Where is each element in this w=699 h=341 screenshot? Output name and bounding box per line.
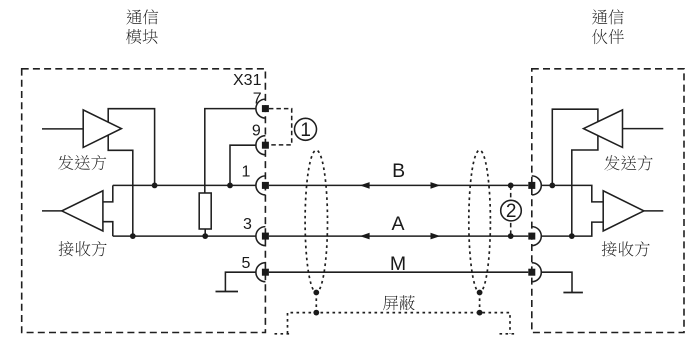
pin 9 socket arc [256, 136, 266, 155]
shield bus line (dotted) [288, 313, 511, 334]
svg-text:9: 9 [252, 123, 261, 140]
pin 5 contact square [262, 269, 269, 276]
junction on line A at x=132.8 [130, 233, 136, 239]
left cable sheath ellipse (dotted) [305, 150, 327, 292]
label 通信 (partner, line 1) [592, 9, 624, 24]
pin 1 socket arc [256, 176, 266, 195]
right cable sheath ellipse (dotted) [469, 150, 491, 292]
junction on line B at x=154.6 [152, 183, 158, 189]
dashed jumper between B and A at partner [510, 185, 512, 236]
label 发送方 (right sender) [604, 155, 652, 170]
label 伙伴 (partner, line 2) [592, 29, 624, 44]
cable line B [269, 184, 528, 186]
left sender driver triangle [83, 110, 121, 147]
arrowheads on line A [360, 233, 370, 240]
module box (communication module, dashed) [22, 69, 266, 333]
label 通信 (module, line 1) [126, 9, 158, 24]
wire: pin 9 stub down to line B [230, 145, 256, 185]
label 接收方 (right receiver) [602, 241, 650, 256]
partner pin M contact square [528, 269, 535, 276]
right receiver triangle [603, 191, 644, 231]
wire: left sender bottom output to line A [108, 135, 133, 236]
left receiver output wire [42, 210, 62, 212]
junction at left sheath bottom [313, 290, 319, 296]
wire: right sender bottom output to line A [572, 136, 598, 237]
shield drop from left sheath [315, 292, 317, 312]
right receiver output wire [644, 210, 663, 212]
svg-text:5: 5 [241, 255, 250, 272]
junction on shield line right [477, 310, 483, 316]
svg-text:2: 2 [506, 201, 517, 222]
svg-text:7: 7 [253, 90, 262, 107]
shield tail right [500, 333, 518, 335]
left sender input wire [42, 128, 83, 130]
pin 7 contact square [262, 105, 269, 112]
dashed jumper between pin 7 and pin 9 [269, 109, 292, 145]
wire: line B inside module to pin 1 [113, 184, 256, 186]
label 模块 (module, line 2) [126, 29, 158, 44]
svg-text:B: B [392, 160, 405, 182]
partner pin B socket arc [532, 176, 542, 195]
junction on shield line left [313, 310, 319, 316]
arrowheads on line B [360, 182, 370, 189]
cable line A [269, 235, 528, 237]
cable line M [269, 271, 528, 273]
right ground symbol [563, 292, 583, 294]
pin 1 contact square [262, 182, 269, 189]
wire: left sender top output to line B [108, 109, 154, 186]
pin 9 contact square [262, 142, 269, 149]
junction at right sheath bottom [477, 290, 483, 296]
wire: partner pin M to ground [541, 272, 572, 292]
wire: line A inside module to pin 3 [113, 235, 256, 237]
svg-text:M: M [390, 253, 406, 275]
wire: pin 5 to ground [225, 272, 256, 291]
wire: left receiver top input from line B [103, 185, 113, 202]
partner pin M socket arc [532, 263, 542, 282]
junction on line B at x=552.3 [549, 183, 555, 189]
label 屏蔽 (shield) [383, 295, 415, 310]
svg-text:1: 1 [242, 163, 251, 180]
partner pin A socket arc [532, 227, 542, 246]
wire: pin 7 stub [205, 109, 256, 193]
wire: line A to right receiver bottom input [541, 222, 603, 236]
svg-text:A: A [391, 213, 404, 235]
wire: right sender top output to line B [552, 109, 598, 185]
label 发送方 (left sender) [58, 155, 106, 170]
junction on line A at resistor [202, 233, 208, 239]
resistor bottom lead to line A [204, 229, 206, 236]
shield drop from right sheath [479, 292, 481, 312]
junction on A at jumper [508, 233, 514, 239]
wire: line B to right receiver top input [541, 185, 603, 202]
callout circle 1 [295, 118, 317, 140]
partner pin A contact square [528, 233, 535, 240]
partner box (communication partner, dashed) [532, 69, 684, 333]
right sender driver triangle [584, 110, 623, 147]
shield tail left [275, 333, 292, 335]
label 接收方 (left receiver) [59, 241, 107, 256]
partner pin B contact square [528, 182, 535, 189]
pin 3 socket arc [256, 227, 266, 246]
junction on line B at x=230 [227, 183, 233, 189]
callout circle 2 [501, 200, 522, 221]
left ground symbol [216, 291, 239, 293]
junction on B at jumper [508, 183, 514, 189]
pin 3 contact square [262, 233, 269, 240]
svg-text:X31: X31 [233, 72, 262, 89]
pin 5 socket arc [256, 263, 266, 282]
junction on line A at x=571.8 [569, 233, 575, 239]
wire: left receiver bottom input from line A [103, 222, 113, 236]
left receiver triangle [62, 191, 103, 231]
right sender input wire [623, 128, 664, 130]
terminating resistor [199, 193, 211, 229]
pin 7 socket arc [256, 99, 266, 118]
svg-text:3: 3 [243, 216, 252, 233]
svg-text:1: 1 [300, 120, 311, 141]
